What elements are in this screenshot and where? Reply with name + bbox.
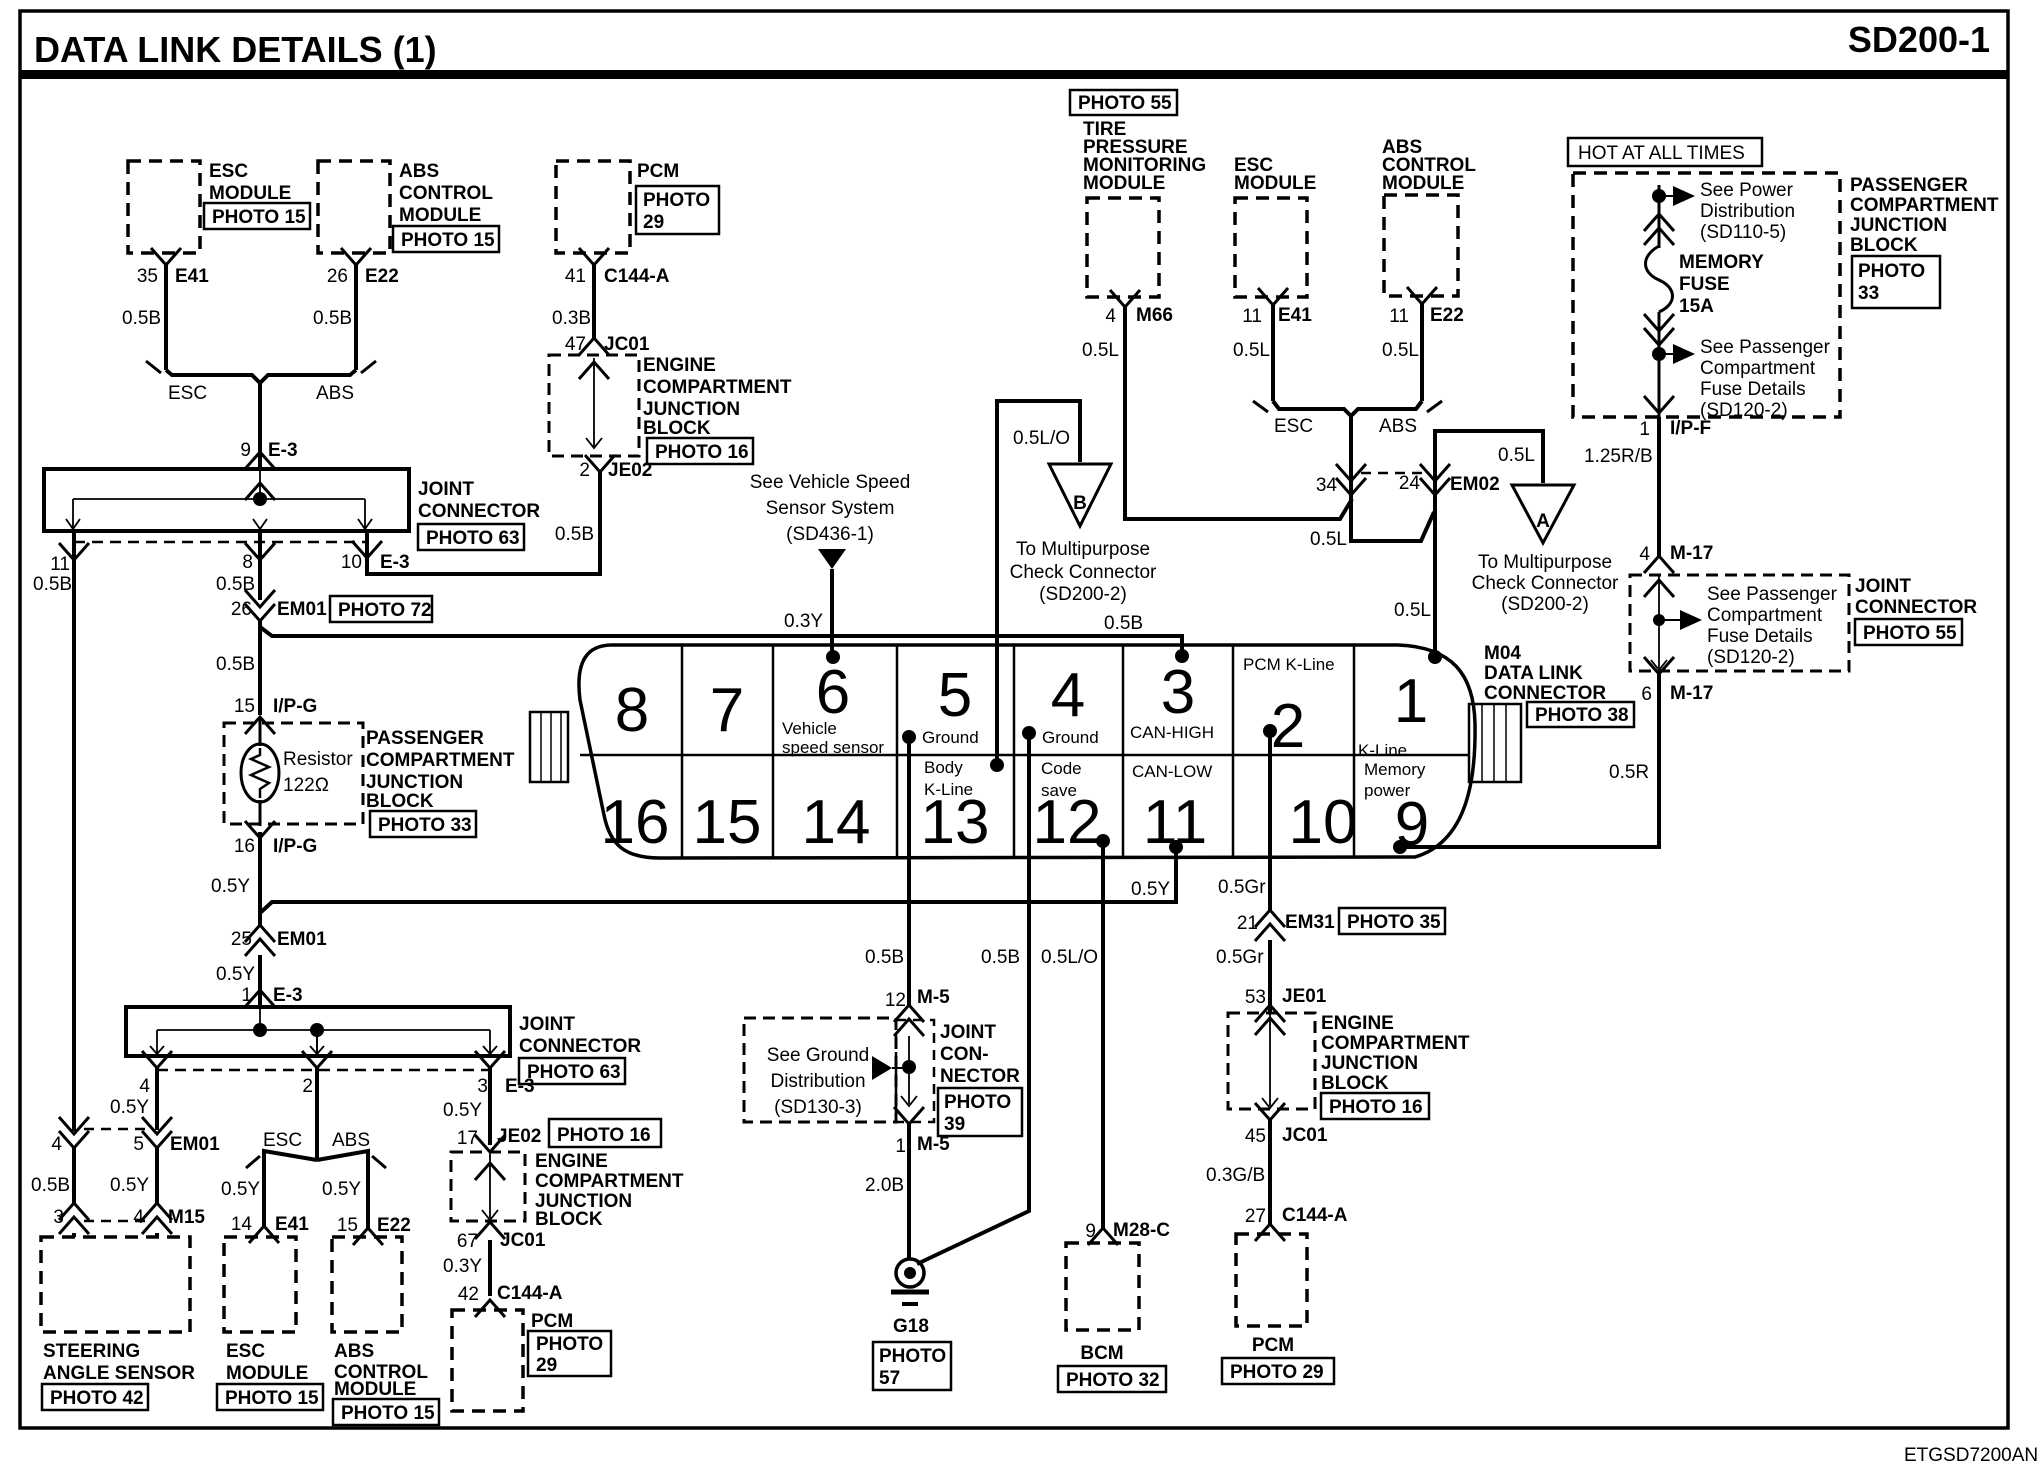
connector M-5 pin 1: [894, 1107, 950, 1157]
wire 0.5B E-3 8 down: [216, 531, 260, 600]
node B to multipurpose check connector: [1010, 464, 1157, 605]
svg-text:COMPARTMENT: COMPARTMENT: [643, 377, 792, 398]
svg-text:K-Line: K-Line: [1358, 741, 1407, 760]
title: [34, 29, 437, 70]
connector JC01 pin 67: [457, 1222, 546, 1252]
svg-text:PHOTO 15: PHOTO 15: [401, 230, 495, 251]
svg-text:PHOTO 16: PHOTO 16: [557, 1125, 651, 1146]
svg-text:BCM: BCM: [1080, 1343, 1123, 1364]
connector M66 pin 4: [1105, 290, 1173, 327]
module ABS control (bottom): [332, 1237, 439, 1425]
connector EM01 pin 25: [231, 925, 327, 956]
svg-text:1: 1: [1394, 667, 1428, 736]
wire 0.5B from E41: [122, 265, 166, 370]
svg-text:FUSE: FUSE: [1679, 274, 1730, 295]
wire 0.5B down to I/P-G: [216, 621, 260, 715]
wire 0.3G/B: [1206, 1120, 1270, 1224]
svg-text:24: 24: [1399, 473, 1421, 494]
M04 data link connector label: [1484, 643, 1634, 727]
svg-text:Compartment: Compartment: [1707, 605, 1823, 626]
svg-text:M-17: M-17: [1670, 543, 1713, 564]
svg-text:JUNCTION: JUNCTION: [643, 399, 740, 420]
wire 0.5B ground pin4 to G18: [917, 733, 1029, 1264]
svg-text:BLOCK: BLOCK: [535, 1209, 603, 1230]
wire 0.5R to DLC pin 9: [1400, 674, 1659, 847]
svg-text:B: B: [1073, 493, 1087, 514]
svg-text:JOINT: JOINT: [940, 1022, 996, 1043]
svg-text:COMPARTMENT: COMPARTMENT: [535, 1171, 684, 1192]
svg-text:PHOTO 16: PHOTO 16: [655, 442, 749, 463]
svg-text:PHOTO 15: PHOTO 15: [341, 1403, 435, 1424]
svg-text:7: 7: [710, 676, 744, 745]
svg-text:ESC: ESC: [168, 383, 207, 404]
svg-text:0.5B: 0.5B: [216, 654, 255, 675]
svg-text:PHOTO 35: PHOTO 35: [1347, 912, 1441, 933]
svg-text:BLOCK: BLOCK: [1321, 1073, 1389, 1094]
connector C144-A pin 41: [565, 248, 670, 287]
engine compartment junction block (lower): [451, 1151, 684, 1230]
wire 0.5B from E22: [313, 265, 356, 370]
svg-text:0.5Y: 0.5Y: [110, 1175, 149, 1196]
svg-text:Check Connector: Check Connector: [1010, 562, 1157, 583]
svg-text:PHOTO 15: PHOTO 15: [225, 1388, 319, 1409]
wire 0.5Gr: [1216, 940, 1270, 1013]
svg-text:E41: E41: [1278, 305, 1312, 326]
svg-text:ABS: ABS: [399, 161, 439, 182]
svg-text:15: 15: [693, 788, 762, 857]
connector E41 pin 11: [1242, 288, 1312, 327]
module steering angle sensor: [41, 1237, 195, 1410]
svg-text:MODULE: MODULE: [1083, 173, 1165, 194]
hot at all times box: [1568, 138, 1762, 166]
svg-text:JUNCTION: JUNCTION: [366, 772, 463, 793]
svg-text:2: 2: [1271, 692, 1305, 761]
svg-text:E-3: E-3: [505, 1076, 535, 1097]
svg-text:5: 5: [133, 1134, 144, 1155]
svg-text:1: 1: [241, 985, 252, 1006]
connector M15 pins 3/4: [53, 1203, 205, 1237]
svg-text:M66: M66: [1136, 305, 1173, 326]
svg-text:21: 21: [1237, 913, 1258, 934]
node see vehicle speed sensor system: [750, 472, 911, 569]
svg-text:A: A: [1536, 511, 1550, 532]
joint connector label right: [1855, 576, 1977, 645]
connector E22 pin 26: [327, 248, 399, 287]
svg-text:PHOTO 33: PHOTO 33: [378, 815, 472, 836]
connector E22 pin 15: [337, 1215, 411, 1245]
wire E-3 10 to JE02: [367, 472, 600, 574]
wire 0.3B: [552, 265, 594, 340]
svg-text:26: 26: [231, 599, 252, 620]
DLC cell labels: [782, 655, 1426, 800]
svg-text:29: 29: [536, 1355, 557, 1376]
svg-text:0.5Y: 0.5Y: [221, 1179, 260, 1200]
svg-text:0.5L: 0.5L: [1233, 340, 1270, 361]
svg-text:MODULE: MODULE: [1382, 173, 1464, 194]
svg-text:25: 25: [231, 929, 252, 950]
svg-text:16: 16: [234, 836, 255, 857]
connector JC01 pin 47: [565, 334, 650, 355]
svg-text:ANGLE SENSOR: ANGLE SENSOR: [43, 1363, 195, 1384]
svg-text:PHOTO 16: PHOTO 16: [1329, 1097, 1423, 1118]
svg-text:MODULE: MODULE: [399, 205, 481, 226]
svg-text:PHOTO: PHOTO: [879, 1346, 946, 1367]
module BCM: [1058, 1243, 1166, 1392]
svg-text:0.5Y: 0.5Y: [110, 1097, 149, 1118]
photo 55 label TPMS: [1070, 90, 1177, 115]
svg-text:2: 2: [579, 460, 590, 481]
connector M-17 pin 6: [1641, 657, 1713, 705]
svg-text:0.5B: 0.5B: [33, 574, 72, 595]
svg-text:ABS: ABS: [1379, 416, 1417, 437]
DLC pin numbers bottom row: [601, 788, 1430, 859]
svg-text:(SD200-2): (SD200-2): [1501, 594, 1589, 615]
svg-text:0.5B: 0.5B: [122, 308, 161, 329]
connector E-3 pin 1: [241, 985, 302, 1007]
data link connector M04 outline: [579, 645, 1475, 858]
svg-text:M-5: M-5: [917, 987, 950, 1008]
svg-text:27: 27: [1245, 1206, 1266, 1227]
svg-text:CON-: CON-: [940, 1044, 989, 1065]
svg-text:9: 9: [1085, 1221, 1096, 1242]
svg-text:4: 4: [133, 1207, 144, 1228]
svg-text:PHOTO: PHOTO: [643, 190, 710, 211]
svg-text:JC01: JC01: [604, 334, 650, 355]
svg-text:PCM: PCM: [637, 161, 679, 182]
svg-text:Fuse Details: Fuse Details: [1707, 626, 1813, 647]
connector E22 pin 11: [1389, 287, 1464, 327]
svg-text:0.5L: 0.5L: [1082, 340, 1119, 361]
svg-text:CONNECTOR: CONNECTOR: [1855, 597, 1977, 618]
svg-text:EM01: EM01: [277, 929, 327, 950]
svg-text:4: 4: [1105, 306, 1116, 327]
svg-text:See Power: See Power: [1700, 180, 1794, 201]
svg-text:15: 15: [337, 1215, 358, 1236]
svg-text:0.3Y: 0.3Y: [784, 611, 823, 632]
wire 0.5Gr PCM K-line down: [1218, 731, 1270, 910]
svg-text:0.5L: 0.5L: [1394, 600, 1431, 621]
joint connector M-17 dashed box: [1630, 575, 1849, 671]
see power distribution text: [1700, 180, 1795, 243]
svg-text:Body: Body: [924, 758, 963, 777]
module ABS control (top left): [318, 161, 499, 253]
wire 0.5Y branch to CAN-LOW pin 11: [260, 847, 1176, 913]
svg-text:12: 12: [885, 990, 906, 1011]
module ABS control (top right): [1382, 137, 1476, 296]
svg-text:4: 4: [1639, 544, 1650, 565]
ground G18: [873, 1259, 951, 1390]
joint connector (lower): [126, 1007, 641, 1084]
svg-text:0.5B: 0.5B: [1104, 613, 1143, 634]
svg-text:CONTROL: CONTROL: [399, 183, 493, 204]
svg-text:EM31: EM31: [1285, 912, 1335, 933]
resistor 122ohm in junction block: [224, 717, 363, 826]
svg-text:8: 8: [615, 676, 649, 745]
module PCM (top): [556, 161, 719, 253]
svg-text:11: 11: [1389, 306, 1409, 327]
svg-text:Compartment: Compartment: [1700, 358, 1816, 379]
connector I/P-F pin 1: [1639, 396, 1711, 440]
svg-text:(SD200-2): (SD200-2): [1039, 584, 1127, 605]
svg-text:0.5Y: 0.5Y: [322, 1179, 361, 1200]
svg-text:6: 6: [1641, 684, 1652, 705]
svg-text:C144-A: C144-A: [497, 1283, 563, 1304]
svg-text:29: 29: [643, 212, 664, 233]
svg-text:JOINT: JOINT: [519, 1014, 575, 1035]
wire 0.5L link EM02 34-24 to DLC pin 1: [1310, 495, 1435, 657]
DLC left tab: [530, 712, 568, 782]
wire 0.3Y to DLC pin 6: [784, 569, 832, 657]
svg-text:PHOTO 32: PHOTO 32: [1066, 1370, 1160, 1391]
svg-text:BLOCK: BLOCK: [366, 791, 434, 812]
svg-text:CAN-LOW: CAN-LOW: [1132, 762, 1212, 781]
svg-text:PCM: PCM: [1252, 1335, 1294, 1356]
connector M28-C pin 9: [1085, 1220, 1170, 1245]
svg-text:ESC: ESC: [209, 161, 248, 182]
svg-text:PHOTO 63: PHOTO 63: [426, 528, 520, 549]
engine compartment junction block (right): [1228, 1013, 1470, 1119]
svg-text:PCM K-Line: PCM K-Line: [1243, 655, 1335, 674]
wire 0.5L from M66: [1082, 307, 1352, 519]
connector EM02 pins 34/24: [1316, 464, 1500, 496]
svg-text:(SD436-1): (SD436-1): [786, 524, 874, 545]
svg-text:E22: E22: [377, 1215, 411, 1236]
svg-text:JE02: JE02: [497, 1126, 541, 1147]
svg-text:COMPARTMENT: COMPARTMENT: [366, 750, 515, 771]
module ESC (bottom): [217, 1237, 323, 1410]
passenger compartment junction block (fuse box): [1573, 173, 1840, 417]
wire 0.5L/O code save to BCM: [1041, 841, 1103, 1228]
svg-text:MODULE: MODULE: [209, 183, 291, 204]
svg-text:4: 4: [139, 1076, 150, 1097]
connector C144-A pin 42: [458, 1283, 563, 1317]
svg-text:save: save: [1041, 781, 1077, 800]
svg-text:33: 33: [1858, 283, 1879, 304]
svg-text:PCM: PCM: [531, 1311, 573, 1332]
wire 0.3Y: [443, 1240, 490, 1296]
svg-text:See Ground: See Ground: [767, 1045, 869, 1066]
svg-text:0.5L: 0.5L: [1382, 340, 1419, 361]
svg-text:3: 3: [53, 1207, 64, 1228]
svg-text:K-Line: K-Line: [924, 780, 973, 799]
connector JE02 pin 17: [457, 1119, 661, 1152]
svg-text:JC01: JC01: [500, 1230, 546, 1251]
svg-text:To Multipurpose: To Multipurpose: [1016, 539, 1150, 560]
svg-text:(SD130-3): (SD130-3): [774, 1097, 862, 1118]
svg-text:Resistor: Resistor: [283, 749, 353, 770]
svg-text:CAN-HIGH: CAN-HIGH: [1130, 723, 1214, 742]
DLC grid: [580, 645, 1470, 858]
svg-text:2.0B: 2.0B: [865, 1175, 904, 1196]
svg-text:39: 39: [944, 1114, 965, 1135]
svg-text:(SD120-2): (SD120-2): [1707, 647, 1795, 668]
node A to multipurpose check connector: [1472, 485, 1619, 615]
svg-text:57: 57: [879, 1368, 900, 1389]
svg-text:C144-A: C144-A: [604, 266, 670, 287]
svg-text:5: 5: [938, 661, 972, 730]
wire 0.5Y down with branch to DLC pin 11: [211, 832, 260, 925]
svg-text:45: 45: [1245, 1126, 1266, 1147]
svg-text:JUNCTION: JUNCTION: [1321, 1053, 1418, 1074]
connector JC01 pin 45: [1245, 1103, 1328, 1147]
svg-text:14: 14: [802, 788, 871, 857]
svg-text:0.5L/O: 0.5L/O: [1041, 947, 1098, 968]
svg-text:15: 15: [234, 696, 255, 717]
svg-text:To Multipurpose: To Multipurpose: [1478, 552, 1612, 573]
svg-text:SD200-1: SD200-1: [1848, 19, 1990, 60]
joint connector label / photo 39: [938, 1022, 1022, 1136]
connector M-17 pin 4: [1639, 543, 1713, 573]
wire 0.5Y: [216, 955, 260, 1007]
svg-text:ENGINE: ENGINE: [1321, 1013, 1394, 1034]
svg-text:PHOTO 38: PHOTO 38: [1535, 705, 1629, 726]
svg-text:4: 4: [51, 1134, 62, 1155]
svg-text:PHOTO 63: PHOTO 63: [527, 1062, 621, 1083]
svg-text:PHOTO 55: PHOTO 55: [1863, 623, 1957, 644]
svg-text:See Passenger: See Passenger: [1700, 337, 1831, 358]
svg-text:NECTOR: NECTOR: [940, 1066, 1020, 1087]
svg-text:11: 11: [50, 554, 70, 575]
svg-text:47: 47: [565, 334, 586, 355]
svg-text:0.5R: 0.5R: [1609, 762, 1649, 783]
footer code: [1904, 1445, 2038, 1466]
svg-text:0.5B: 0.5B: [31, 1175, 70, 1196]
svg-text:42: 42: [458, 1284, 479, 1305]
svg-text:C144-A: C144-A: [1282, 1205, 1348, 1226]
svg-text:Code: Code: [1041, 759, 1082, 778]
svg-text:ABS: ABS: [334, 1341, 374, 1362]
svg-text:0.5B: 0.5B: [865, 947, 904, 968]
svg-text:M15: M15: [168, 1207, 205, 1228]
connector JE02 pin 2: [579, 455, 652, 481]
svg-text:EM01: EM01: [277, 599, 327, 620]
dashed connector line E-3 4/2/3: [139, 1051, 534, 1097]
svg-text:(SD120-2): (SD120-2): [1700, 400, 1788, 421]
svg-text:41: 41: [565, 266, 586, 287]
svg-text:6: 6: [816, 658, 850, 727]
svg-text:1: 1: [1639, 419, 1650, 440]
svg-text:0.3B: 0.3B: [552, 308, 591, 329]
svg-text:EM01: EM01: [170, 1134, 220, 1155]
svg-text:M-17: M-17: [1670, 683, 1713, 704]
svg-text:0.5L: 0.5L: [1310, 529, 1347, 550]
svg-text:0.5Y: 0.5Y: [443, 1100, 482, 1121]
svg-text:ESC: ESC: [263, 1130, 302, 1151]
svg-text:PHOTO: PHOTO: [536, 1334, 603, 1355]
svg-text:Ground: Ground: [922, 728, 979, 747]
page code SD200-1: [1848, 19, 1990, 60]
wire 0.5Y E-3 4 down: [110, 1068, 157, 1130]
svg-text:COMPARTMENT: COMPARTMENT: [1850, 195, 1999, 216]
svg-text:14: 14: [231, 1214, 253, 1235]
connector E41 pin 14: [231, 1214, 309, 1243]
svg-text:8: 8: [242, 552, 253, 573]
svg-text:JC01: JC01: [1282, 1125, 1328, 1146]
connector EM31 pin 21: [1237, 908, 1445, 941]
connector EM01 pin 26: [231, 590, 432, 622]
svg-text:PASSENGER: PASSENGER: [1850, 175, 1968, 196]
wire E-3 2 split to ESC/ABS: [221, 1068, 386, 1228]
svg-text:E-3: E-3: [273, 985, 303, 1006]
svg-text:E41: E41: [275, 1214, 309, 1235]
svg-text:I/P-F: I/P-F: [1670, 418, 1711, 439]
svg-text:CONNECTOR: CONNECTOR: [519, 1036, 641, 1057]
svg-text:PHOTO 72: PHOTO 72: [338, 600, 432, 621]
svg-text:G18: G18: [893, 1316, 929, 1337]
svg-text:67: 67: [457, 1231, 478, 1252]
DLC pin numbers top row: [615, 658, 1428, 761]
svg-text:E22: E22: [365, 266, 399, 287]
dashed connector line E-3 11/8/10: [50, 541, 409, 575]
svg-text:E-3: E-3: [268, 440, 298, 461]
svg-text:0.5B: 0.5B: [981, 947, 1020, 968]
see ground distribution reference: [744, 1018, 909, 1122]
svg-text:PASSENGER: PASSENGER: [366, 728, 484, 749]
module ESC (top right): [1234, 155, 1316, 297]
svg-text:0.5Gr: 0.5Gr: [1218, 877, 1266, 898]
svg-text:E-3: E-3: [380, 552, 410, 573]
svg-text:15A: 15A: [1679, 296, 1714, 317]
wire 0.5B ground pin5 to M-5: [865, 737, 909, 1005]
svg-text:Memory: Memory: [1364, 760, 1426, 779]
svg-text:3: 3: [1161, 658, 1195, 727]
svg-text:JE02: JE02: [608, 460, 652, 481]
svg-text:0.5Y: 0.5Y: [216, 964, 255, 985]
svg-text:M28-C: M28-C: [1113, 1220, 1170, 1241]
passenger compartment junction block label: [1850, 175, 1999, 308]
wires 0.5L merge ESC/ABS: [1233, 304, 1442, 495]
svg-text:ESC: ESC: [1274, 416, 1313, 437]
svg-text:JOINT: JOINT: [1855, 576, 1911, 597]
svg-text:Ground: Ground: [1042, 728, 1099, 747]
svg-text:Distribution: Distribution: [1700, 201, 1795, 222]
svg-text:0.5B: 0.5B: [313, 308, 352, 329]
DLC pin dots: [826, 649, 1442, 854]
joint connector (upper): [44, 469, 540, 550]
wires 0.5B / 0.5Y to M15: [31, 1148, 157, 1203]
svg-text:11: 11: [1242, 306, 1262, 327]
svg-text:Distribution: Distribution: [770, 1071, 865, 1092]
joint connector M-5 dashed: [896, 1020, 934, 1122]
svg-text:0.3Y: 0.3Y: [443, 1256, 482, 1277]
svg-text:53: 53: [1245, 987, 1266, 1008]
svg-text:BLOCK: BLOCK: [643, 418, 711, 439]
svg-text:Check Connector: Check Connector: [1472, 573, 1619, 594]
svg-text:power: power: [1364, 781, 1411, 800]
svg-text:ABS: ABS: [332, 1130, 370, 1151]
wire 0.5B E-3 11 down (left tall wire): [33, 531, 74, 1131]
svg-text:Sensor System: Sensor System: [766, 498, 895, 519]
wire EM02 24 up to check connector A: [1435, 431, 1543, 495]
connector JE01 pin 53: [1245, 986, 1327, 1022]
svg-text:2: 2: [302, 1076, 313, 1097]
module tire pressure monitoring: [1083, 119, 1206, 297]
svg-text:0.5Y: 0.5Y: [1131, 879, 1170, 900]
module PCM (bottom left): [452, 1310, 611, 1411]
svg-text:M-5: M-5: [917, 1134, 950, 1155]
svg-text:ENGINE: ENGINE: [643, 355, 716, 376]
svg-text:16: 16: [601, 788, 670, 857]
connector EM01 pins 4/5: [51, 1117, 220, 1155]
see passenger compartment fuse details text: [1700, 337, 1831, 421]
svg-text:STEERING: STEERING: [43, 1341, 140, 1362]
connector I/P-G pin 15: [234, 696, 317, 734]
svg-text:DATA LINK: DATA LINK: [1484, 663, 1583, 684]
svg-text:Vehicle: Vehicle: [782, 719, 837, 738]
svg-text:0.5L/O: 0.5L/O: [1013, 428, 1070, 449]
svg-text:0.5Y: 0.5Y: [211, 876, 250, 897]
connector E-3 pin 9: [240, 440, 297, 469]
